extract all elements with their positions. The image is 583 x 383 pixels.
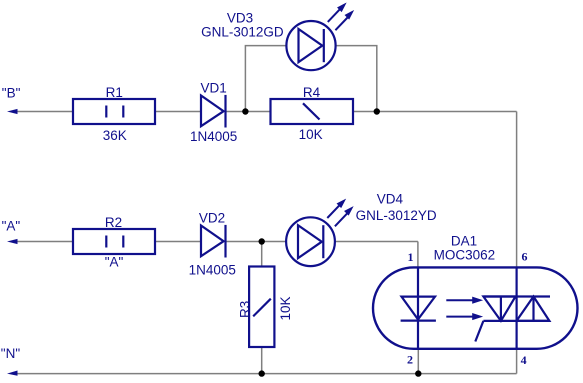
svg-text:1N4005: 1N4005 [190,129,237,144]
svg-text:GNL-3012GD: GNL-3012GD [201,25,284,40]
svg-text:R1: R1 [106,85,123,100]
svg-text:1N4005: 1N4005 [189,263,236,278]
svg-text:1: 1 [408,250,414,264]
svg-text:"A": "A" [105,255,124,270]
svg-text:"N": "N" [1,346,21,361]
svg-text:VD4: VD4 [377,191,404,206]
svg-text:GNL-3012YD: GNL-3012YD [356,208,437,223]
svg-text:DA1: DA1 [451,233,477,248]
svg-text:VD2: VD2 [199,211,225,226]
svg-text:"A": "A" [2,219,21,234]
svg-text:R4: R4 [303,85,321,100]
svg-text:VD1: VD1 [200,80,226,95]
svg-text:36K: 36K [103,128,127,143]
svg-text:10K: 10K [278,296,293,320]
svg-text:10K: 10K [299,127,323,142]
svg-text:"B": "B" [2,86,21,101]
svg-text:R2: R2 [105,215,122,230]
svg-text:6: 6 [522,249,528,263]
svg-text:2: 2 [407,353,413,367]
svg-text:4: 4 [521,353,527,367]
svg-text:MOC3062: MOC3062 [434,248,496,263]
svg-text:VD3: VD3 [227,11,253,26]
svg-text:R3: R3 [238,301,253,318]
